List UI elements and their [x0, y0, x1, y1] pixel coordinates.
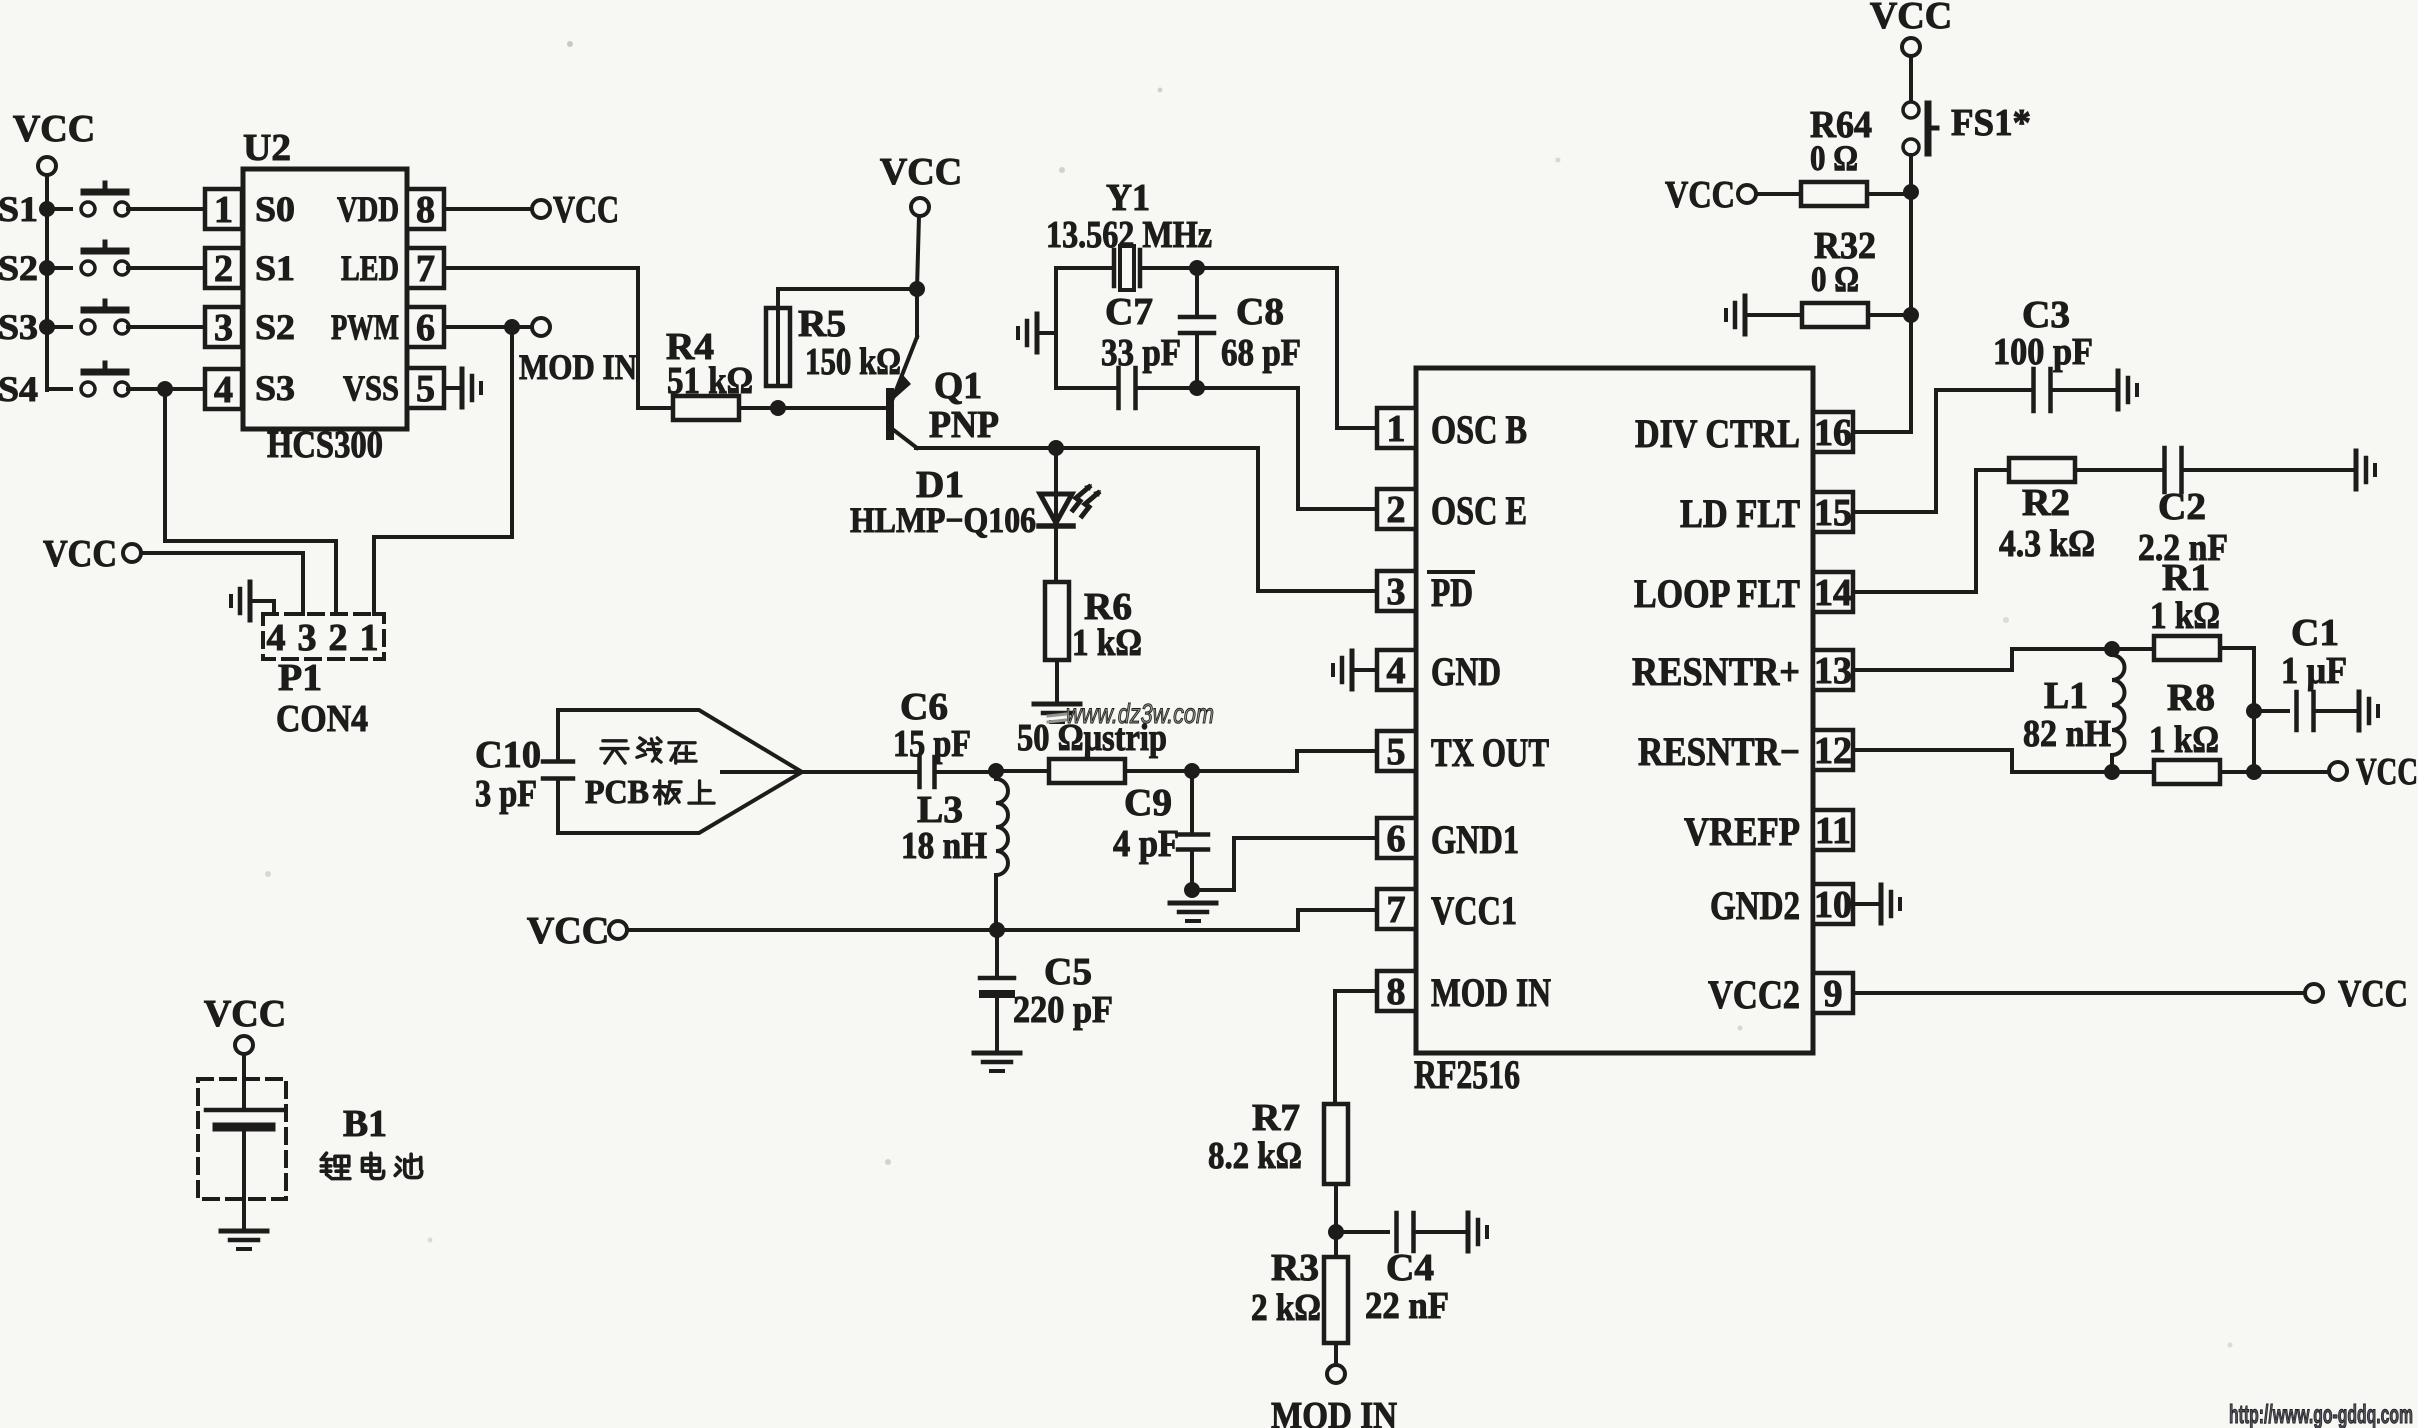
wire - R64 to junction [1867, 192, 1911, 196]
node - R5/R4 base junction [770, 400, 786, 416]
svg-text:VCC: VCC [1870, 0, 1952, 37]
wire - MOD IN node to P1 pin1 [374, 327, 512, 614]
pin label LED of U2 [341, 248, 399, 288]
svg-text:4 pF: 4 pF [1113, 823, 1179, 865]
node - R64 junction [1903, 184, 1919, 200]
svg-text:VCC2: VCC2 [1708, 972, 1800, 1017]
svg-text:PNP: PNP [929, 404, 999, 446]
pin label GND1 of RF2516 [1431, 817, 1519, 862]
pin 7 box of U2 [407, 248, 444, 290]
resistor 50ohm microstrip [1049, 759, 1125, 783]
svg-text:8: 8 [1387, 971, 1406, 1013]
ground (R32) [1726, 296, 1745, 334]
svg-text:C10: C10 [475, 734, 541, 776]
ground (R6) [1034, 704, 1080, 722]
label R6 [1084, 586, 1132, 628]
wire - S4 row to P1 pin2 [165, 389, 336, 614]
svg-text:VCC: VCC [13, 108, 95, 150]
svg-text:3: 3 [1387, 571, 1406, 613]
svg-text:33 pF: 33 pF [1101, 332, 1181, 374]
pin 4 label of P1 [267, 617, 286, 659]
svg-text:GND2: GND2 [1710, 883, 1800, 928]
wire - R4 left [638, 406, 673, 410]
svg-text:C7: C7 [1105, 291, 1153, 333]
wire - C9 node to pin6 [1192, 838, 1375, 890]
wire - C6 to L3 node [935, 770, 996, 774]
label Y1 [1106, 177, 1150, 219]
node - VCC1/C5 junction [989, 922, 1005, 938]
node - C1 junction [2246, 703, 2262, 719]
svg-text:16: 16 [1814, 412, 1852, 454]
svg-text:0 Ω: 0 Ω [1811, 259, 1859, 299]
node - R8/VCC junction [2246, 764, 2262, 780]
svg-text:C4: C4 [1386, 1247, 1434, 1289]
label 220 pF [1013, 989, 1113, 1031]
wire - R1 to right rail [2220, 646, 2254, 650]
wire - VCC to R64 [1756, 192, 1801, 196]
svg-text:VCC: VCC [2338, 973, 2408, 1015]
power VCC (R64) [1665, 174, 1756, 216]
label Q1 [934, 365, 982, 407]
pin 1 label of P1 [360, 617, 379, 659]
resistor R64 [1801, 182, 1867, 206]
label 15 pF [893, 723, 971, 765]
watermark go-gddq url [2229, 1399, 2413, 1428]
svg-text:Y1: Y1 [1106, 177, 1150, 219]
wire - antenna feed [722, 770, 917, 774]
svg-text:7: 7 [1387, 889, 1406, 931]
label 锂电池 [321, 1153, 422, 1179]
label R2 [2022, 482, 2070, 524]
pin 7 box of RF2516 [1377, 889, 1416, 931]
svg-text:CON4: CON4 [276, 698, 368, 740]
pin label GND2 of RF2516 [1710, 883, 1800, 928]
label 2 kΩ [1251, 1287, 1321, 1329]
svg-text:RESNTR−: RESNTR− [1638, 729, 1800, 774]
wire - VCC to emitter [917, 216, 919, 289]
pin 3 label of P1 [298, 617, 317, 659]
pin label S2 of U2 [255, 307, 295, 347]
svg-text:15: 15 [1814, 492, 1852, 534]
svg-text:C2: C2 [2158, 486, 2206, 528]
svg-text:C3: C3 [2022, 294, 2070, 336]
svg-text:S1: S1 [0, 189, 38, 229]
svg-text:2: 2 [329, 617, 348, 659]
power VCC (FS1) [1870, 0, 1952, 56]
wire - C1 to ground [2314, 709, 2355, 713]
terminal MOD IN [519, 318, 637, 387]
pin label RESNTR− of RF2516 [1638, 729, 1800, 774]
label R64 [1810, 104, 1872, 146]
svg-text:82 nH: 82 nH [2023, 713, 2111, 755]
svg-text:1 kΩ: 1 kΩ [1072, 622, 1142, 664]
label PNP [929, 404, 999, 446]
svg-text:Q1: Q1 [934, 365, 982, 407]
capacitor C5 [980, 930, 1014, 1051]
switch S2 (pushbutton) [0, 242, 205, 288]
wire - C1 from rail [2254, 709, 2288, 713]
capacitor C6 [920, 757, 935, 787]
pin 1 box of U2 [205, 189, 242, 231]
wire - R4 to Q1 base [739, 406, 886, 410]
pin 4 box of RF2516 [1377, 650, 1416, 692]
pin 11 box of RF2516 [1813, 810, 1853, 852]
pin 4 box of U2 [205, 369, 242, 411]
label R5 [798, 303, 846, 345]
node - L1/R1 top junction [2104, 641, 2120, 657]
power VCC (battery) [204, 993, 286, 1054]
pin 2 box of RF2516 [1377, 489, 1416, 531]
svg-text:R5: R5 [798, 303, 846, 345]
svg-text:11: 11 [1815, 810, 1851, 852]
label R8 [2167, 677, 2215, 719]
svg-text:S1: S1 [255, 248, 295, 288]
terminal MOD IN (bottom) [1327, 1365, 1345, 1383]
resistor R32 [1802, 303, 1868, 327]
node - S1 row junction [39, 201, 55, 217]
pin label RESNTR+ of RF2516 [1632, 649, 1800, 694]
wire - oscillator top rail to pin1 [1056, 268, 1375, 428]
label 1 μF [2281, 650, 2347, 692]
label 4 pF [1113, 823, 1179, 865]
pin label OSC E of RF2516 [1431, 488, 1527, 533]
ground (pin4 GND) [1333, 651, 1352, 689]
wire - junction to microstrip [1004, 769, 1049, 773]
node - collector / D1 junction [1048, 440, 1064, 456]
wire - C2 to ground [2182, 468, 2352, 472]
inductor L1 [2112, 649, 2125, 772]
svg-text:68 pF: 68 pF [1221, 332, 1301, 374]
label 4.3 kΩ [1999, 523, 2095, 565]
wire - L1 bottom to R8 [2112, 770, 2154, 774]
switch S3 (pushbutton) [0, 301, 205, 347]
pin label LD FLT of RF2516 [1680, 491, 1800, 536]
svg-text:http://www.go-gddq.com: http://www.go-gddq.com [2229, 1399, 2413, 1428]
label 100 pF [1993, 331, 2093, 373]
pin 3 box of U2 [205, 307, 242, 349]
label 68 pF [1221, 332, 1301, 374]
wire - R6 to ground [1055, 660, 1059, 702]
resistor R8 [2154, 760, 2220, 784]
svg-text:R3: R3 [1271, 1247, 1319, 1289]
svg-text:15 pF: 15 pF [893, 723, 971, 765]
pin 16 box of RF2516 [1813, 412, 1853, 454]
svg-text:C6: C6 [900, 686, 948, 728]
ic U2 HCS300 body [243, 169, 407, 429]
label C9 [1124, 782, 1172, 824]
wire - R5 top to emitter rail [778, 289, 917, 386]
ground (C5) [974, 1053, 1020, 1071]
wire - L1 top to R1 [2112, 647, 2154, 651]
svg-text:2 kΩ: 2 kΩ [1251, 1287, 1321, 1329]
label 天线在 (antenna note line1) [601, 738, 696, 763]
wire - R7 to C4 node [1334, 1184, 1338, 1257]
label 0 Ω (R64) [1810, 138, 1858, 178]
label 18 nH [901, 825, 987, 867]
svg-text:4.3 kΩ: 4.3 kΩ [1999, 523, 2095, 565]
svg-text:RF2516: RF2516 [1414, 1052, 1520, 1097]
label R7 [1252, 1097, 1300, 1139]
label 13.562 MHz [1046, 214, 1212, 256]
wire - R32 to junction [1868, 313, 1911, 317]
wire - R2 to C2 [2075, 468, 2164, 472]
svg-text:S3: S3 [0, 307, 38, 347]
svg-text:1: 1 [214, 189, 233, 231]
label MOD IN (bottom) [1271, 1395, 1397, 1428]
svg-text:S3: S3 [255, 368, 295, 408]
pin label TX OUT of RF2516 [1431, 730, 1549, 775]
scan noise specks (decorative) [265, 41, 2233, 1348]
capacitor C9 [1178, 771, 1208, 890]
pin 1 box of RF2516 [1377, 408, 1416, 450]
svg-text:LOOP FLT: LOOP FLT [1634, 571, 1800, 616]
pin 2 box of U2 [205, 248, 242, 290]
label FS1* [1951, 102, 2031, 144]
svg-text:S2: S2 [0, 248, 38, 288]
capacitor C8 [1180, 268, 1214, 388]
ground (pin10 GND2) [1881, 885, 1900, 923]
pin 2 label of P1 [329, 617, 348, 659]
label R32 [1814, 225, 1876, 267]
pin 8 box of U2 [407, 189, 444, 231]
label P1 [278, 657, 322, 699]
pin 5 box of RF2516 [1377, 731, 1416, 773]
svg-text:6: 6 [416, 307, 435, 349]
power VCC (Q1 emitter) [880, 151, 962, 216]
power VCC (P1 pin3) [43, 533, 141, 575]
resistor R3 [1324, 1257, 1348, 1343]
svg-text:TX OUT: TX OUT [1431, 730, 1549, 775]
ground (C1) [2359, 692, 2378, 730]
svg-text:VCC: VCC [43, 533, 117, 575]
pin label PD (active low) of RF2516 [1429, 570, 1473, 615]
svg-text:LED: LED [341, 248, 399, 288]
label C10 [475, 734, 541, 776]
ground (battery) [221, 1231, 267, 1249]
label 50 Ωμstrip [1017, 717, 1167, 759]
label HCS300 [267, 424, 383, 466]
label 8.2 kΩ [1208, 1135, 1302, 1177]
wire - pin8 to R7 [1335, 991, 1377, 1105]
resistor R1 [2154, 636, 2220, 660]
wire - ground to R32 [1745, 313, 1802, 317]
led D1 [1039, 448, 1101, 586]
label B1 [343, 1103, 387, 1145]
svg-text:VCC1: VCC1 [1431, 888, 1517, 933]
capacitor C10 [543, 762, 573, 779]
pin label S0 of U2 [255, 189, 295, 229]
ground (C9) [1170, 903, 1216, 921]
power VCC (top-left switch rail) [13, 108, 95, 175]
wire - C3 to ground [2051, 388, 2114, 392]
wire - VCC to battery [242, 1054, 246, 1108]
svg-text:OSC E: OSC E [1431, 488, 1527, 533]
pin label VCC1 of RF2516 [1431, 888, 1517, 933]
switch FS1* [1903, 102, 1937, 155]
capacitor C1 [2297, 692, 2314, 730]
svg-text:4: 4 [1387, 650, 1406, 692]
power VCC (RESNTR rail) [2329, 751, 2418, 793]
capacitor C2 [2165, 448, 2182, 492]
crystal Y1 [1114, 246, 1140, 290]
resistor R7 [1324, 1104, 1348, 1184]
label L1 [2044, 675, 2088, 717]
ic RF2516 body [1416, 368, 1813, 1053]
pin 14 box of RF2516 [1813, 572, 1853, 614]
svg-text:OSC B: OSC B [1431, 407, 1527, 452]
pin 15 box of RF2516 [1813, 492, 1853, 534]
svg-text:VCC: VCC [880, 151, 962, 193]
wire - pin13 to L1 top [1853, 649, 2104, 670]
connector P1 CON4 (dashed outline) [263, 614, 384, 659]
svg-text:S4: S4 [0, 369, 38, 409]
svg-text:5: 5 [1387, 731, 1406, 773]
svg-text:2: 2 [1387, 489, 1406, 531]
pin 6 box of U2 [407, 307, 444, 349]
label CON4 [276, 698, 368, 740]
ground (VSS) [462, 369, 481, 407]
pin label PWM of U2 [331, 307, 399, 347]
pin label S1 of U2 [255, 248, 295, 288]
pin label VCC2 of RF2516 [1708, 972, 1800, 1017]
pin label MOD IN of RF2516 [1431, 970, 1551, 1015]
svg-text:HLMP−Q106: HLMP−Q106 [850, 500, 1036, 540]
label 1 kΩ [1072, 622, 1142, 664]
capacitor C7 [1119, 368, 1136, 408]
wire - VDD pin8 to VCC [444, 207, 532, 211]
pin 13 box of RF2516 [1813, 650, 1853, 692]
svg-text:MOD IN: MOD IN [1271, 1395, 1397, 1428]
svg-text:R2: R2 [2022, 482, 2070, 524]
svg-text:13: 13 [1814, 650, 1852, 692]
label D1 [916, 464, 964, 506]
label 82 nH [2023, 713, 2111, 755]
wire - pin15 to C3 [1853, 390, 2030, 512]
label RF2516 [1414, 1052, 1520, 1097]
pin label GND of RF2516 [1431, 649, 1501, 694]
resistor R6 [1045, 582, 1069, 660]
ground (C2) [2356, 451, 2375, 489]
svg-text:3 pF: 3 pF [475, 773, 537, 815]
svg-text:www.dz3w.com: www.dz3w.com [1066, 698, 1214, 729]
svg-text:14: 14 [1814, 572, 1852, 614]
power VCC (VDD) [532, 189, 619, 231]
wire - LED pin7 to R4 [444, 268, 638, 408]
svg-text:22 nF: 22 nF [1365, 1285, 1449, 1327]
node - C6/L3/microstrip junction [988, 763, 1004, 779]
svg-text:VCC: VCC [527, 910, 609, 952]
svg-text:GND: GND [1431, 649, 1501, 694]
node - R7/R3/C4 junction [1328, 1224, 1344, 1240]
svg-text:4: 4 [267, 617, 286, 659]
node - crystal/C8 top [1189, 260, 1205, 276]
wire - pin9 to VCC [1853, 991, 2305, 995]
svg-text:7: 7 [416, 248, 435, 290]
label 1 kΩ (R1) [2150, 595, 2220, 637]
svg-text:R7: R7 [1252, 1097, 1300, 1139]
pin label VREFP of RF2516 [1684, 809, 1800, 854]
svg-text:VSS: VSS [343, 368, 399, 408]
wire - right rail vertical [2252, 648, 2256, 772]
pin 12 box of RF2516 [1813, 730, 1853, 772]
svg-text:51 kΩ: 51 kΩ [667, 360, 753, 402]
wire - VCC rail down the switch column [45, 175, 49, 390]
label 2.2 nF [2138, 527, 2228, 569]
svg-text:VCC: VCC [2356, 751, 2418, 793]
transistor Q1 (PNP) [890, 289, 917, 448]
resistor R2 [2009, 458, 2075, 482]
node - R5/emitter junction [909, 281, 925, 297]
node - C9/ground junction [1184, 882, 1200, 898]
wire - pin12 to L1 bottom [1853, 750, 2104, 772]
pin 6 box of RF2516 [1377, 818, 1416, 860]
label C2 [2158, 486, 2206, 528]
node - C7/C8 bottom [1189, 380, 1205, 396]
svg-text:1: 1 [360, 617, 379, 659]
ground (oscillator) [1018, 314, 1056, 352]
svg-text:C1: C1 [2291, 612, 2339, 654]
wire - R3 to MOD IN terminal [1334, 1343, 1338, 1365]
ground (C4) [1468, 1213, 1487, 1251]
pin 3 box of RF2516 [1377, 571, 1416, 613]
svg-text:100 pF: 100 pF [1993, 331, 2093, 373]
label U2 [243, 127, 291, 169]
wire - battery to ground [242, 1131, 246, 1229]
pin label LOOP FLT of RF2516 [1634, 571, 1800, 616]
svg-text:GND1: GND1 [1431, 817, 1519, 862]
power VCC (VCC2) [2305, 973, 2408, 1015]
svg-text:VCC: VCC [553, 189, 619, 231]
svg-text:VCC: VCC [204, 993, 286, 1035]
wire - C4 to ground [1414, 1230, 1464, 1234]
watermark www.dz3w.com [1048, 698, 1214, 729]
switch S1 (pushbutton) [0, 183, 205, 229]
label C7 [1105, 291, 1153, 333]
wire - PWM pin6 to MOD IN node [444, 325, 532, 329]
svg-text:S2: S2 [255, 307, 295, 347]
svg-text:12: 12 [1814, 730, 1852, 772]
svg-text:PD: PD [1431, 570, 1473, 615]
pin 10 box of RF2516 [1813, 884, 1853, 926]
ground (C3) [2118, 371, 2137, 409]
svg-text:B1: B1 [343, 1103, 387, 1145]
svg-text:LD FLT: LD FLT [1680, 491, 1800, 536]
pin label VSS of U2 [343, 368, 399, 408]
inductor L3 [996, 771, 1008, 930]
node - PWM / P1-1 junction [504, 319, 520, 335]
svg-text:R1: R1 [2162, 557, 2210, 599]
wire - oscillator left leg [1054, 268, 1058, 388]
svg-text:9: 9 [1824, 973, 1843, 1015]
svg-text:P1: P1 [278, 657, 322, 699]
svg-text:R8: R8 [2167, 677, 2215, 719]
svg-text:S0: S0 [255, 189, 295, 229]
svg-text:U2: U2 [243, 127, 291, 169]
label C5 [1044, 951, 1092, 993]
pin 9 box of RF2516 [1813, 973, 1853, 1015]
svg-text:1 kΩ: 1 kΩ [2150, 595, 2220, 637]
pin 5 box of U2 [407, 368, 444, 410]
label PCB板上 (antenna note line2) [585, 774, 714, 811]
svg-text:4: 4 [214, 369, 233, 411]
svg-text:18 nH: 18 nH [901, 825, 987, 867]
label 1 kΩ (R8) [2149, 719, 2219, 761]
wire - oscillator bottom rail to pin2 [1056, 388, 1375, 509]
svg-text:VREFP: VREFP [1684, 809, 1800, 854]
wire - pin4 to ground [1354, 668, 1377, 672]
resistor R4 [673, 396, 739, 420]
svg-text:6: 6 [1387, 818, 1406, 860]
